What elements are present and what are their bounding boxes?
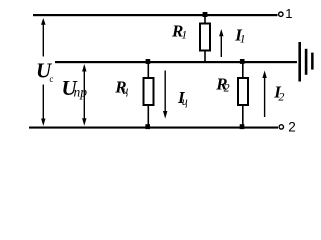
svg-text:пр: пр [74,84,88,99]
svg-text:ц: ц [122,83,128,97]
ground symbol (earth, rotated) [298,42,313,82]
node junction R2 top [240,59,245,64]
label Rc [114,77,128,97]
svg-text:с: с [49,74,53,84]
resistor R2 body [238,63,248,126]
svg-text:1: 1 [240,31,246,45]
wire top bus (terminal 1 rail) [33,14,278,16]
voltage arrow Unp (double headed, middle rail to bottom rail) [82,64,86,126]
current arrow Ic (down) [163,71,167,119]
current arrow I2 (up) [262,71,266,118]
node terminal circle 1 [279,12,283,16]
voltage arrow Uc (double headed, top rail to bottom rail) [41,18,46,126]
label I2 [273,83,284,104]
svg-text:2: 2 [288,120,296,135]
svg-text:1: 1 [181,28,187,42]
label R1 [171,22,187,42]
label Unp [62,76,88,100]
resistor R1 body [200,16,210,61]
wire middle bus (ground rail) [55,61,297,63]
node junction R1 top [203,12,208,17]
node junction Rc bottom [145,124,150,129]
node junction R2 bottom [240,124,245,129]
svg-text:2: 2 [224,81,230,95]
node junction Rc top [146,59,151,64]
svg-text:ц: ц [182,94,188,108]
wire bottom bus (terminal 2 rail) [29,127,278,129]
resistor Rc (R-tsz) body [144,63,154,126]
svg-text:2: 2 [278,89,284,103]
node terminal circle 2 [279,125,283,129]
label R2 [215,74,229,94]
svg-text:1: 1 [285,6,292,21]
label Uc [35,57,55,85]
current arrow I1 (up) [219,29,223,57]
label Ic [177,88,188,108]
label I1 [234,26,245,46]
